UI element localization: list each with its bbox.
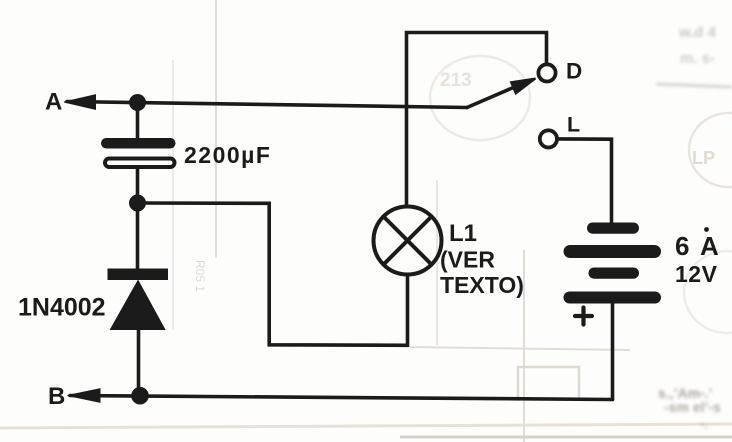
wire : junction down to diode cathode bar [136, 203, 140, 271]
junction dot on wire A [129, 94, 146, 111]
diode D1 triangle (anode, pointing up) [111, 282, 164, 330]
battery B1 plate 3 (short) [589, 268, 640, 279]
terminal D circle [538, 64, 555, 81]
svg-text:B: B [48, 383, 65, 410]
svg-text:A: A [700, 231, 719, 261]
switch arm (wiper) from wire A toward D [467, 86, 518, 108]
node B arrowhead [68, 389, 101, 403]
svg-text:A: A [45, 89, 62, 116]
svg-text:12V: 12V [675, 261, 718, 287]
battery plus sign [575, 314, 592, 318]
svg-text:m. s-: m. s- [680, 50, 715, 67]
capacitor C1 bottom plate (outline) [105, 159, 175, 168]
wire : diode anode down to node B [137, 328, 141, 396]
terminal L circle [540, 130, 557, 147]
svg-text:LP: LP [692, 148, 715, 168]
svg-text:6: 6 [675, 231, 689, 261]
junction dot below capacitor [129, 195, 146, 212]
junction dot node B [131, 387, 149, 405]
wire : battery bottom plate down to wire B [611, 302, 615, 400]
svg-text:-sm el’-s: -sm el’-s [664, 399, 721, 415]
svg-text:(VER: (VER [440, 247, 495, 273]
svg-text:D: D [566, 59, 582, 84]
wire : lamp top up, across and down to terminal D [407, 33, 547, 207]
lamp L1 : X cross [384, 217, 432, 265]
battery B1 plate 2 (long) [564, 245, 662, 258]
switch arm arrowhead [511, 79, 536, 94]
wire B : horizontal bottom line [70, 396, 613, 400]
svg-text:L: L [567, 113, 580, 137]
lamp L1 : circle [374, 207, 442, 275]
svg-text:2200µF: 2200µF [184, 142, 271, 168]
capacitor C1 top plate (filled) [101, 138, 176, 149]
wire : junction to lamp bottom (L-shaped run) [138, 203, 408, 345]
svg-text:L1: L1 [449, 220, 477, 247]
svg-text:1N4002: 1N4002 [18, 294, 106, 322]
svg-text:TEXTO): TEXTO) [440, 272, 524, 298]
svg-text:213: 213 [440, 70, 472, 91]
wire : capacitor bottom plate to junction node [136, 169, 140, 203]
svg-text:R05 1: R05 1 [193, 260, 207, 292]
svg-text:w.d 4: w.d 4 [678, 24, 717, 41]
battery B1 plate 4 (long, bottom) [564, 292, 662, 304]
svg-text:-.: -. [700, 416, 708, 431]
diode D1 cathode bar [108, 269, 169, 281]
wire : terminal L right and down to battery top plate [559, 139, 612, 224]
accent dot above A [704, 227, 709, 232]
wire : node A down to capacitor top plate [136, 103, 140, 141]
wire A : horizontal line from arrow A to switch arm start [67, 102, 467, 108]
battery B1 plate 1 (short, top) [587, 223, 639, 234]
node A arrowhead [64, 95, 96, 110]
